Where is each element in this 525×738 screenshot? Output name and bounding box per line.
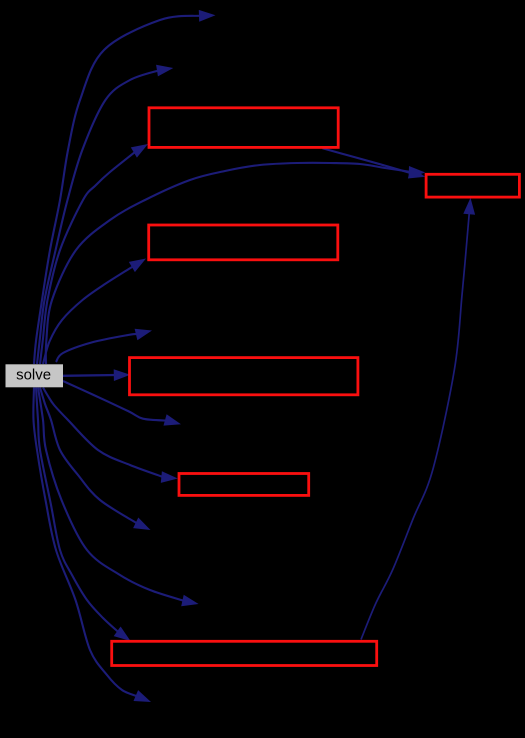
svg-text:solve: solve [16, 367, 51, 384]
